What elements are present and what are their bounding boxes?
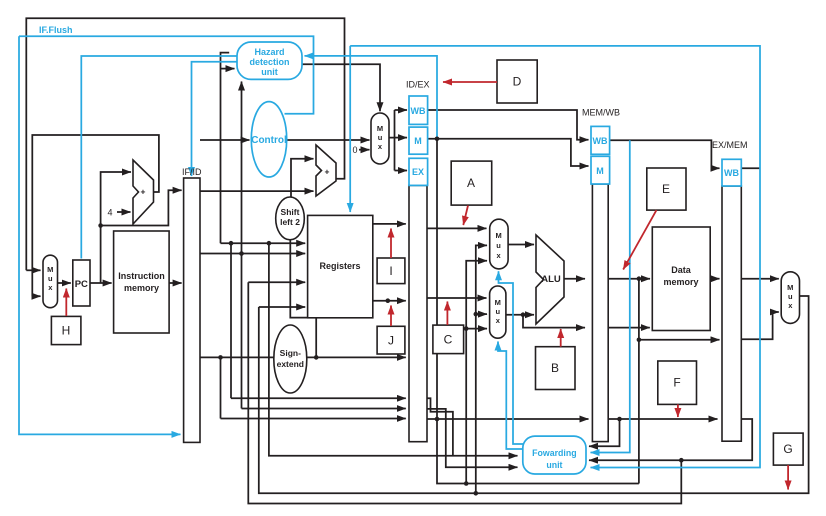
IF/ID register	[184, 178, 200, 442]
box G	[773, 433, 803, 465]
svg-text:Registers: Registers	[319, 261, 360, 271]
wire rs vertical to hazard unit	[221, 53, 230, 244]
box F	[658, 361, 697, 404]
EX/MEM WB box	[722, 159, 741, 186]
wire data memory read data to MEM/WB	[710, 278, 719, 280]
PC+4 adder	[133, 160, 154, 224]
svg-text:unit: unit	[546, 460, 562, 470]
svg-text:ID/EX: ID/EX	[406, 80, 430, 90]
svg-text:MEM/WB: MEM/WB	[582, 108, 620, 118]
wire IF/ID write from hazard unit	[192, 62, 238, 176]
branch adder	[316, 145, 336, 196]
wire top mux to ALU	[508, 244, 534, 246]
wire constant 4 into adder	[117, 211, 131, 213]
wire WB chain MEM/WB to EX/MEM	[610, 140, 720, 168]
wire zero into mux	[359, 149, 370, 151]
wire rd vertical down	[220, 357, 222, 418]
PC source mux	[43, 255, 58, 308]
box I	[377, 258, 405, 284]
wire M chain ID/EX to MEM/WB	[428, 139, 589, 166]
svg-text:Data: Data	[671, 265, 692, 275]
wire into ID/EX EX	[395, 170, 408, 172]
wire rd after MEM/WB loop back	[589, 419, 752, 460]
svg-text:WB: WB	[593, 136, 608, 146]
wire branch-target loop	[26, 18, 344, 270]
svg-text:PC: PC	[75, 279, 88, 290]
wire rt into ID/EX	[242, 408, 406, 410]
sign-extend ellipse	[274, 325, 307, 393]
arrow E	[623, 210, 656, 269]
forward B mux	[490, 286, 506, 338]
wire PC to Instruction memory	[90, 282, 112, 284]
wire read register 1	[221, 242, 306, 244]
wire write data	[259, 306, 305, 308]
svg-text:M: M	[377, 124, 383, 133]
wire hazard unit to zero mux select	[302, 64, 380, 111]
svg-text:M: M	[787, 283, 793, 292]
wire registers read data 2	[373, 300, 406, 302]
wire write register	[248, 281, 305, 283]
wire into ID/EX WB	[395, 109, 408, 111]
arrow A	[463, 206, 468, 226]
svg-text:unit: unit	[261, 67, 278, 77]
wire PC mux to PC	[56, 282, 70, 284]
svg-text:memory: memory	[124, 283, 159, 293]
forwarding unit	[523, 436, 586, 474]
svg-text:M: M	[495, 231, 501, 240]
wire rd EX/MEM to forwarding unit	[589, 419, 620, 446]
cyan wires	[19, 36, 760, 467]
svg-text:+: +	[141, 187, 146, 197]
wire ID/EX to bottom mux	[427, 297, 487, 299]
svg-text:+: +	[325, 167, 330, 177]
wire IF.Flush down left side to IF/ID	[19, 36, 181, 434]
wire store data to EX/MEM	[523, 315, 585, 328]
wire read register 2	[200, 253, 305, 255]
svg-text:E: E	[662, 182, 670, 196]
box E	[647, 168, 686, 210]
wire ALU result to EX/MEM	[564, 278, 585, 280]
wire rd into ID/EX	[221, 418, 406, 420]
letter label boxes	[51, 60, 803, 465]
wire stall loop branch into registers top	[349, 46, 351, 212]
ID/EX register bar	[409, 185, 427, 441]
wire rd EX/MEM to MEM/WB	[608, 418, 717, 420]
wire ALU result to data memory address	[608, 278, 650, 280]
wire rt to forwarding unit	[427, 409, 518, 467]
wire branch target into PC mux	[26, 269, 40, 271]
svg-text:IF.Flush: IF.Flush	[39, 25, 73, 35]
wire forward B select	[498, 342, 524, 450]
box B	[536, 347, 576, 390]
svg-text:Control: Control	[251, 135, 287, 146]
writeback mux	[781, 272, 799, 324]
box J	[377, 326, 405, 354]
svg-text:Hazard: Hazard	[254, 47, 284, 57]
svg-text:EX/MEM: EX/MEM	[712, 140, 748, 150]
svg-text:G: G	[783, 442, 792, 456]
box D	[497, 60, 537, 103]
arrow B	[560, 329, 562, 347]
hazard detection unit	[237, 42, 302, 79]
arrow G	[787, 465, 789, 489]
wire rt vertical to hazard unit	[241, 82, 243, 409]
PC	[73, 260, 90, 306]
svg-text:I: I	[389, 264, 392, 278]
EX/MEM register bar (third)	[722, 186, 741, 441]
svg-text:C: C	[444, 333, 453, 347]
wire MEM/WB forward to top mux	[476, 245, 487, 493]
svg-text:detection: detection	[249, 57, 289, 67]
svg-text:F: F	[673, 376, 680, 390]
wire WB chain ID/EX to MEM/WB	[428, 110, 589, 140]
svg-text:ALU: ALU	[541, 274, 561, 285]
svg-text:u: u	[788, 292, 793, 301]
ID/EX EX box	[409, 158, 428, 185]
wire rs vertical down	[230, 243, 232, 398]
wire PC+4 loop	[32, 135, 159, 296]
arrow D	[443, 81, 497, 83]
control ellipse	[251, 102, 286, 177]
svg-text:B: B	[551, 361, 559, 375]
svg-text:EX: EX	[412, 167, 424, 177]
svg-text:Sign-: Sign-	[280, 348, 301, 358]
red quiz arrows	[66, 82, 788, 490]
wire WB junction down to forwarding unit	[591, 140, 630, 452]
svg-text:u: u	[496, 307, 501, 316]
wire instruction to sign-extend	[200, 356, 274, 358]
svg-text:D: D	[513, 75, 522, 89]
arrow H	[65, 289, 67, 317]
stage register labels and misc	[108, 80, 748, 218]
white filled components on top of wires	[43, 113, 800, 442]
svg-text:4: 4	[108, 208, 113, 218]
arrow C	[446, 302, 448, 326]
svg-text:u: u	[48, 274, 53, 283]
wire ALU result under memory to MEM/WB	[639, 339, 720, 341]
svg-text:J: J	[388, 334, 394, 348]
shift left 2 ellipse	[276, 197, 305, 240]
svg-text:WB: WB	[724, 168, 739, 178]
letter labels	[62, 75, 793, 457]
svg-text:0: 0	[353, 145, 358, 155]
svg-text:memory: memory	[663, 277, 698, 287]
wire PC to IF/ID	[101, 190, 182, 225]
wire write-register riser and bottom line L3	[248, 282, 681, 503]
svg-text:u: u	[496, 241, 501, 250]
MEM/WB M box	[591, 156, 610, 184]
svg-text:M: M	[596, 166, 604, 176]
registers	[308, 215, 373, 317]
svg-text:Fowarding: Fowarding	[532, 448, 576, 458]
MEM/WB register bar (second)	[592, 184, 608, 442]
box A	[451, 161, 492, 205]
arrow I	[390, 229, 392, 259]
wire forward A select	[499, 271, 525, 444]
svg-text:u: u	[378, 133, 383, 142]
data memory	[652, 227, 710, 331]
wire EX/MEM forward bottom line L1	[437, 419, 639, 484]
wire read data MEM/WB to wb mux	[741, 278, 779, 280]
wire IF.Flush line	[19, 36, 314, 113]
box C	[433, 325, 464, 354]
svg-text:A: A	[467, 176, 475, 190]
forward A mux	[490, 219, 508, 269]
wire stub into hazard unit	[221, 68, 235, 70]
wire Instruction memory to IF/ID	[169, 282, 182, 284]
wire M to hazard unit	[305, 56, 438, 139]
wire registers read data 1	[373, 223, 406, 225]
wire shift left 2 to branch adder	[291, 159, 314, 197]
wire ALU result bypass vertical	[638, 279, 640, 484]
ID/EX WB box	[409, 96, 428, 124]
wire PCWrite from hazard unit to PC	[81, 56, 237, 259]
box H	[51, 316, 81, 344]
zero mux	[371, 113, 389, 164]
wire EX/MEM forward to top mux	[466, 261, 487, 484]
svg-text:M: M	[47, 265, 53, 274]
ALU	[536, 235, 564, 324]
wire instruction to Control	[200, 139, 250, 141]
svg-text:IF/ID: IF/ID	[182, 167, 202, 177]
mux labels	[47, 124, 793, 325]
wire WB stub right of EX/MEM WB box	[741, 167, 760, 169]
wire rs to forwarding unit	[269, 243, 518, 456]
svg-text:M: M	[414, 136, 422, 146]
wire stall loop to registers and forwarding unit	[350, 46, 760, 468]
wire zero mux to ID/EX control boxes	[389, 110, 395, 171]
ID/EX M box	[409, 127, 428, 154]
wire store data to data memory	[608, 327, 650, 329]
wire IF/ID to branch adder	[200, 190, 314, 192]
wire rd ID/EX to EX/MEM	[427, 418, 589, 420]
wire rs into ID/EX	[231, 397, 406, 399]
wire sign-extend output jog up to shift left 2	[290, 240, 316, 357]
arrow J	[390, 306, 392, 327]
svg-text:Instruction: Instruction	[118, 271, 165, 281]
wire into ID/EX M	[395, 137, 408, 139]
wire writeback mux output loop	[259, 296, 809, 493]
wire PC+4 into PC mux	[32, 295, 40, 297]
wire rs jog onto forwarding line	[427, 398, 453, 456]
svg-text:Shift: Shift	[281, 207, 300, 217]
wire ALU result MEM/WB to wb mux	[741, 312, 779, 339]
wire bottom mux to ALU	[506, 314, 534, 316]
wire ID/EX to ALU top mux	[427, 227, 487, 229]
svg-text:H: H	[62, 324, 71, 338]
wire MEM/WB forward to bottom mux	[476, 313, 487, 315]
wire PC branch up to adder	[101, 172, 131, 283]
svg-text:M: M	[495, 298, 501, 307]
wire Control to zero mux	[287, 139, 370, 141]
arrow F	[677, 404, 679, 417]
svg-text:left 2: left 2	[280, 217, 300, 227]
svg-text:extend: extend	[277, 359, 304, 369]
wire EX/MEM forward to bottom mux	[466, 328, 487, 330]
svg-text:WB: WB	[411, 106, 426, 116]
wire M junction branch down	[436, 139, 438, 419]
wire sign-extend output	[307, 356, 406, 358]
MEM/WB WB box	[591, 126, 610, 154]
instruction memory	[114, 231, 170, 333]
